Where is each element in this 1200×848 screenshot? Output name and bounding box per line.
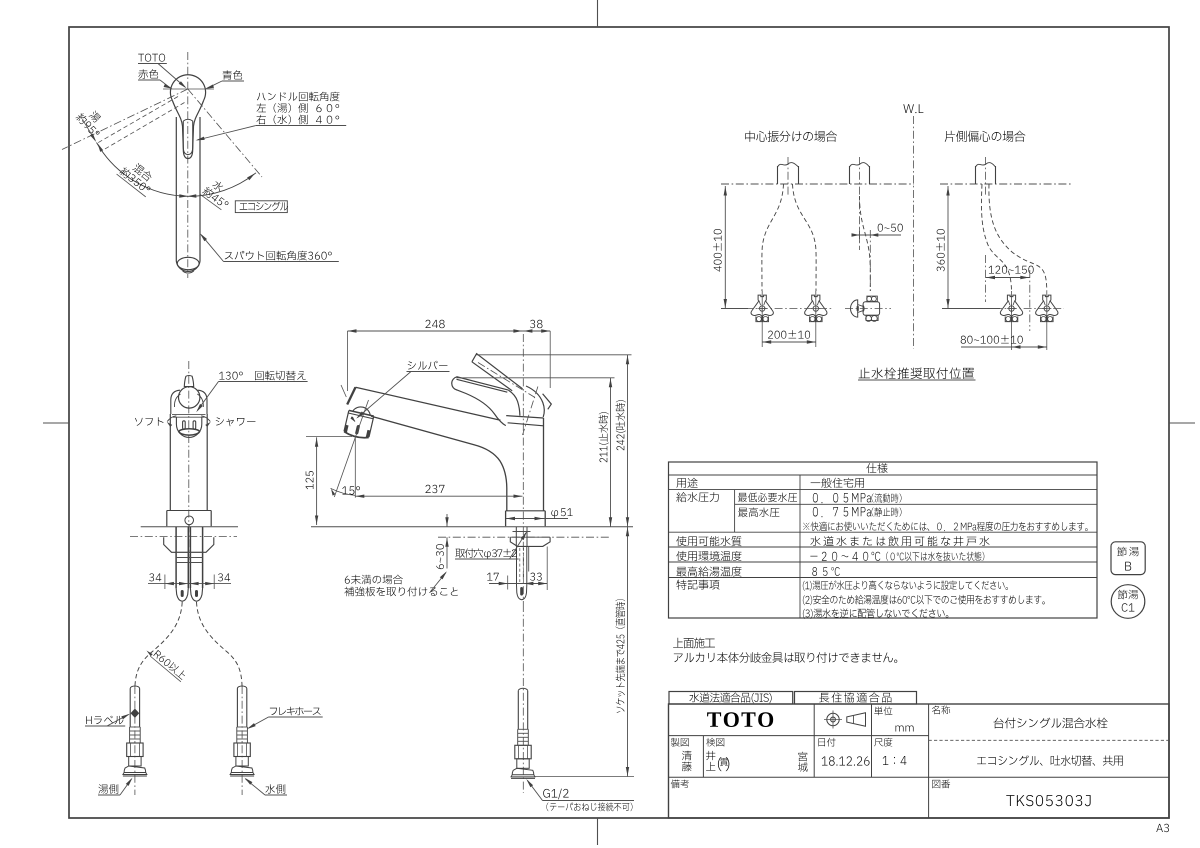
faucet base B (0-50 case) [850, 166, 870, 184]
shank tips [176, 588, 188, 601]
stop valve (front view) at 1047,308 [1036, 295, 1058, 322]
valve C1 center line [1011, 291, 1013, 325]
flex hose end at 242 [236, 689, 238, 728]
upper lever (raised position) [472, 354, 523, 389]
dimension 237 [355, 495, 522, 497]
R60 label [150, 648, 187, 682]
sheet size label A3 [1156, 824, 1169, 832]
soft label [135, 417, 164, 426]
chouju compliance box [795, 692, 917, 705]
spout head cup (front) [176, 417, 201, 437]
dimension 17/33 [489, 583, 547, 585]
dimension phi51 [506, 518, 568, 520]
caption: recommended stop valve position [859, 367, 974, 379]
left diagram counter line [721, 183, 914, 185]
installation note [673, 638, 715, 649]
base flange (front) [167, 510, 211, 512]
row2 labels [671, 738, 689, 747]
supply shanks (front) [175, 527, 177, 588]
mounting washer plate (side) [510, 537, 550, 546]
deck counter line [311, 526, 633, 528]
spout tip small arc [183, 271, 194, 273]
stop valve (front view) at 1012,308 [1000, 295, 1022, 322]
unit cell [874, 706, 892, 715]
remarks label [671, 780, 689, 789]
faucet base C (broken view) [976, 166, 996, 184]
faucet base A hoses (dashed) [762, 184, 784, 291]
setsuyu B mark [1111, 542, 1145, 575]
rotate arrows (front) [167, 416, 176, 422]
set screw circle [185, 516, 194, 525]
faucet base B hose (dashed) [860, 196, 871, 291]
eco single box label [235, 201, 287, 213]
H label diamond marker [131, 709, 140, 718]
valve horizontal center line A [745, 308, 833, 310]
stop valve (side view) at 870,308 [851, 300, 858, 317]
phantom lever right tip [543, 394, 552, 410]
scale [883, 756, 907, 765]
valve C2 center line [1046, 291, 1048, 325]
G1/2 label [543, 789, 568, 800]
dimension 425 to socket end [627, 527, 629, 777]
centering tick top [597, 0, 599, 27]
cold side label [265, 784, 285, 794]
hot side label [98, 784, 118, 794]
silver finish label [408, 361, 448, 370]
side view center axis [522, 334, 524, 527]
dimension 248/38 top [348, 330, 551, 332]
top view center line [187, 52, 189, 278]
dimension 0~50 [853, 234, 901, 236]
mounting clamp (front) [164, 537, 214, 552]
stop valve (front view) at 762,308 [751, 295, 773, 322]
setsuyu C1 mark [1111, 585, 1145, 619]
spec table row line (sub-row) [735, 503, 1097, 505]
extension line 242 [477, 354, 632, 356]
dimension 360+-10 [947, 186, 949, 309]
approver name [798, 752, 807, 762]
checker name [706, 751, 715, 760]
JIS compliance box [669, 692, 793, 705]
name cell dashed divider [929, 739, 1169, 741]
shoulder inner curves [174, 394, 180, 407]
hose dashed curves (front) [135, 602, 182, 689]
drawing number label [932, 780, 950, 789]
dimension 211 (stop) [610, 378, 612, 527]
dimension 242 (flow) [627, 355, 629, 527]
spec table column line sub [734, 490, 736, 533]
spec table texts [866, 463, 887, 473]
rotation fan arc [97, 143, 188, 197]
cap shoulders (front) [171, 390, 180, 414]
front view center line lower [188, 480, 190, 560]
valve horizontal center line C [994, 308, 1064, 310]
projection symbol [827, 713, 839, 725]
valve A2 center line [815, 291, 817, 325]
cold angle label 45 [200, 176, 237, 211]
spec table column line main [799, 475, 801, 618]
right diagram counter line [940, 183, 1073, 185]
mount hole label [455, 548, 516, 559]
valve A1 center line [761, 291, 763, 325]
supply socket tube (side) [516, 546, 518, 585]
W.L wall line label [903, 104, 923, 113]
hot leader line [83, 120, 96, 141]
leader TOTO label [138, 54, 165, 62]
spec table outer frame [669, 462, 1098, 618]
drafter name [682, 751, 692, 761]
handle dome left outline [508, 390, 520, 416]
dome tilt dash-dot [523, 387, 538, 436]
lower lever [452, 377, 509, 426]
date [822, 756, 870, 765]
W.L center line [912, 116, 914, 349]
counter bottom dash-dot [438, 536, 611, 538]
left diagram title: center split case [745, 131, 837, 142]
centering tick left [43, 422, 69, 424]
body top rim [506, 416, 543, 418]
mounting shank (side) [515, 527, 517, 546]
dimension 125 [316, 437, 318, 525]
red/blue dot marker line on ball [163, 88, 214, 90]
handle lever inner slot [183, 119, 192, 154]
title block frame [669, 704, 1170, 818]
hose center lines [134, 686, 136, 795]
body right edge [543, 418, 545, 511]
valve B center line [869, 230, 871, 291]
shower label [216, 417, 256, 426]
leader red dot label [138, 69, 158, 79]
hot angle label 95 [75, 104, 109, 138]
H-label leader [86, 716, 123, 724]
dimension 400+-10 [724, 186, 726, 309]
title block lines [669, 735, 929, 737]
spout bottom edge and body left edge [371, 416, 507, 511]
spout end face [347, 387, 355, 404]
stop valve (front view) at 816,308 [805, 295, 827, 322]
valve horizontal center line B [845, 308, 891, 310]
reinforcement note [345, 575, 403, 585]
counter bottom dash-dot (front) [130, 536, 237, 538]
subtitle [977, 755, 1123, 766]
name label [932, 706, 950, 715]
extension line 211 [457, 377, 615, 379]
spout outlet ellipse (front) [179, 429, 200, 435]
rotation limit dash-dot right [188, 89, 262, 177]
faucet base A (broken view) [778, 166, 799, 184]
spec table row lines [669, 474, 1098, 476]
handle axis dash-dot [478, 363, 535, 398]
leader to handle [197, 126, 256, 141]
faucet C hoses (dash-dot) [981, 184, 1011, 291]
front view center line [188, 361, 190, 480]
handle ball (front) [179, 387, 200, 408]
handle tip (front) [184, 376, 193, 387]
shank bands [176, 551, 203, 553]
leader blue dot label [223, 70, 242, 80]
TOTO logo [707, 712, 773, 727]
spray mode nubs [183, 421, 186, 429]
dimension 34-34 [148, 583, 231, 585]
spout head joint lines (front) [172, 414, 206, 416]
counter line (front) [141, 526, 238, 528]
spout tip aerator ellipse [177, 257, 199, 269]
aerator head (side view) [343, 404, 375, 439]
15 degree construction [354, 438, 356, 498]
mix angle label 350 [117, 157, 160, 197]
right diagram title: one-side eccentric case [945, 131, 1026, 142]
rotation limit dash-dot left [62, 89, 188, 150]
130 deg switch label [219, 371, 306, 381]
dimension 6~30 counter thickness [446, 514, 448, 527]
centering tick bottom [597, 818, 599, 845]
flex hose end at 523 [517, 691, 519, 730]
spout pipe top view [175, 117, 177, 261]
spout pipe tip outline [176, 261, 200, 271]
base flange (side) [506, 510, 546, 512]
dimension 80~100+-10 [961, 346, 1047, 348]
spout top edge [356, 387, 501, 420]
body sides (front) [169, 414, 171, 511]
handle lever top view outline [172, 101, 203, 159]
handle rotation angle note [257, 92, 340, 102]
spout rotation label [225, 251, 332, 261]
dimension 200+-10 [762, 341, 816, 343]
rotated lever position dashed lines [98, 97, 179, 144]
phantom dome right outline [526, 386, 544, 417]
centering tick right [1169, 422, 1195, 424]
dimension 120~150 [986, 277, 1030, 279]
flex hose label [270, 707, 321, 716]
flex hose end at 135 [129, 689, 131, 728]
handle ball (top view) [170, 75, 205, 101]
